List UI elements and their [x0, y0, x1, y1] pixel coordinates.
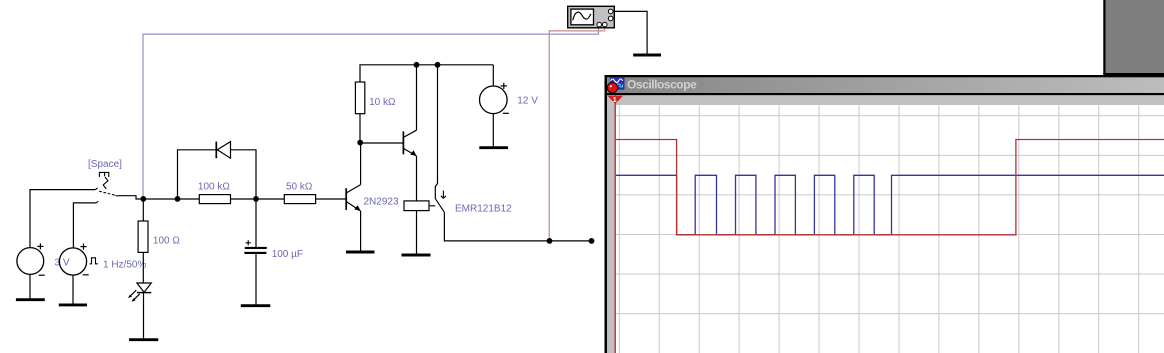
label: 2N2923 [364, 197, 399, 208]
label: 100 kOhm [198, 182, 230, 193]
gray window block top right [1103, 0, 1164, 75]
ground: Q1 emitter ground symbol [346, 251, 375, 254]
diode D1 branch [178, 142, 257, 199]
transistor Q2 NPN [403, 130, 416, 156]
wire: main rail node A to node B [143, 198, 199, 200]
label: 100 Ohm [153, 236, 180, 247]
svg-text:100 Ω: 100 Ω [153, 236, 180, 247]
label: 50 kOhm [286, 182, 313, 193]
label: 1 Hz/50% [103, 260, 146, 271]
resistor R1 100 kOhm [199, 195, 230, 204]
oscilloscope display grid [615, 105, 1164, 353]
ground: battery ground symbol [16, 298, 45, 301]
wire: Q2 emitter down to relay coil [416, 156, 418, 201]
label: 100 uF [272, 249, 303, 260]
svg-text:10 kΩ: 10 kΩ [369, 97, 396, 108]
node C junction dot (rail / diode / capacitor) [253, 196, 259, 202]
wire: Q2 collector up to top rail [416, 65, 418, 130]
wire: R2 to Q1 base [316, 198, 347, 200]
label: 10 kOhm [369, 97, 396, 108]
label: [Space] [88, 159, 122, 170]
relay K1 contact arm with arrow [435, 191, 446, 213]
svg-text:100 µF: 100 µF [272, 249, 303, 260]
source V3 12 V [480, 83, 509, 114]
label: 12 V [517, 96, 538, 107]
red waveform trace channel B [616, 140, 1164, 235]
wire: 12V top to rail [492, 65, 494, 86]
svg-text:3 V: 3 V [55, 258, 70, 269]
clock source V2 1 Hz/50% [59, 244, 97, 276]
oscilloscope icon XSC1 [568, 6, 615, 28]
wire: Q1 collector up to node D [360, 143, 362, 185]
wire: clock V2 bottom to ground [72, 275, 74, 304]
svg-text:100 kΩ: 100 kΩ [198, 182, 230, 193]
svg-text:Oscilloscope: Oscilloscope [627, 78, 697, 92]
node H wire end dot [589, 238, 595, 244]
battery V1 3V [17, 243, 45, 275]
node A junction dot (switch / R3 / blue wire) [140, 196, 146, 202]
node D junction dot (10k / Q1 collector / Q2 base) [357, 140, 363, 146]
wire: Q2 base wire from node D [360, 142, 403, 144]
wire: relay contact feed from node F [435, 65, 437, 199]
svg-text:[Space]: [Space] [88, 159, 122, 170]
svg-text:12 V: 12 V [517, 96, 538, 107]
ground: capacitor ground symbol [241, 304, 270, 307]
cursor 1 triangle marker [608, 95, 624, 104]
LED LED1 [128, 283, 151, 302]
wire: switch common to node A [118, 196, 144, 199]
wire: oscilloscope ground wire [614, 11, 647, 54]
svg-text:1: 1 [613, 95, 617, 104]
capacitor C1 100uF electrolytic [244, 199, 266, 305]
ground: LED ground symbol [129, 338, 158, 341]
oscilloscope window title bar [607, 77, 1164, 93]
resistor R4 10 kOhm vertical [355, 65, 364, 143]
oscilloscope marker strip and left margin [607, 95, 1164, 353]
oscilloscope window title text [627, 78, 697, 92]
ground: 12V ground symbol [479, 146, 508, 149]
node B junction dot (rail / diode branch) [175, 196, 181, 202]
oscilloscope window frame [605, 75, 1164, 353]
svg-text:EMR121B12: EMR121B12 [455, 204, 512, 215]
blue waveform trace channel A [616, 175, 1164, 235]
wire: 12V bottom to ground [492, 114, 494, 147]
relay K1 EMR121B12 coil [404, 201, 435, 255]
red cursor 1 vertical line [614, 96, 616, 353]
wire: Q1 emitter to ground [360, 211, 362, 252]
label: 3 V [55, 258, 70, 269]
wire: battery V1 bottom to ground [29, 274, 31, 299]
transistor Q1 2N2923 NPN [346, 185, 360, 211]
wire: blue scope channel A wire from node A to oscilloscope icon [143, 28, 599, 199]
node F junction dot (rail / relay contact feed) [435, 62, 441, 68]
resistor R3 100 Ohm vertical [138, 199, 148, 283]
wire: clock V2 top to switch lower throw [73, 203, 96, 248]
wire: relay contact output to node G [444, 212, 591, 241]
resistor R2 50 kOhm [284, 195, 315, 204]
oscilloscope display area [615, 105, 1164, 353]
svg-text:50 kΩ: 50 kΩ [286, 182, 313, 193]
label: EMR121B12 [455, 204, 512, 215]
oscilloscope window title icon [607, 77, 624, 93]
svg-text:1 Hz/50%: 1 Hz/50% [103, 260, 146, 271]
svg-text:2N2923: 2N2923 [364, 197, 399, 208]
wire: rail node C to R2 [231, 198, 285, 200]
ground: oscilloscope ground symbol [633, 54, 661, 57]
node E junction dot (rail / Q2 collector) [414, 62, 420, 68]
wire: LED cathode to ground [143, 293, 145, 339]
ground: relay coil ground symbol [402, 254, 431, 257]
ground: clock source ground symbol [59, 303, 87, 306]
node G junction dot (red wire junction) [547, 238, 553, 244]
wire: battery V1 top to switch upper throw [30, 190, 95, 248]
switch S1 [Space] SPDT [95, 172, 117, 203]
wire: top rail [359, 64, 493, 66]
wire: red scope channel B wire from relay output node to oscilloscope icon [549, 28, 604, 241]
